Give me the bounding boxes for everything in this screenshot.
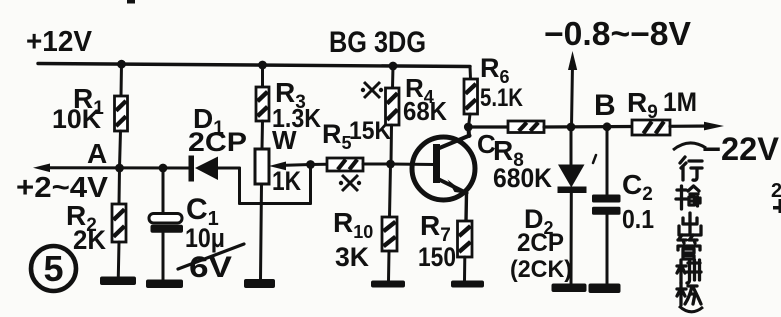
select mark for R4 [361,82,383,98]
node junction collector [464,123,473,132]
svg-text:6V: 6V [189,251,232,284]
power label +12V [26,26,93,58]
value 10u [185,223,225,253]
value D2 2CP [517,229,564,257]
ground R2 [100,277,136,286]
wire R6 bottom lead [469,114,471,127]
value 1K [272,166,301,196]
node junction rail-R3 [258,61,267,70]
wire R10 bottom lead [387,251,391,281]
wire R2 top lead [118,168,122,204]
label C1 [186,193,219,230]
wire R10 top lead [390,164,391,217]
wire D2 bottom lead [570,193,573,284]
value 1M [663,87,697,117]
svg-text:2: 2 [771,180,781,202]
hanzi chu (out) [679,213,701,235]
svg-text:68K: 68K [403,96,447,126]
resistor R6 [464,79,478,114]
resistor R4 [386,88,400,125]
label node A [87,138,107,169]
wire R8-R9 lead [544,125,632,129]
label node B [594,89,616,122]
resistor R9 [632,120,670,135]
wire collector-R8 lead [468,125,508,128]
wire bias measure arrow [568,51,577,127]
svg-text:B: B [594,89,616,122]
svg-text:150: 150 [418,242,456,272]
label +2~4V [16,172,109,204]
resistor R8 [508,121,544,133]
diode D1 cathode bar [189,156,195,182]
wire emitter down lead [464,193,468,221]
wire R3-W lead [261,121,265,149]
wire D1 feedback loop [240,165,311,204]
value 2CP [188,127,247,157]
node junction A-C1 [159,164,168,173]
node junction wiper [306,160,315,169]
annotation closing paren [679,306,703,312]
label -22V [702,131,780,167]
svg-text:5.1K: 5.1K [480,84,523,112]
label R7 [420,210,451,246]
scan speck top [127,0,135,4]
wire R7 bottom lead [463,257,466,281]
resistor R10 [382,217,397,251]
svg-text:A: A [87,138,107,169]
label R10 [333,207,373,242]
svg-text:10μ: 10μ [185,223,225,253]
capacitor C2 top plate [592,195,621,203]
resistor R2 [112,204,126,242]
value 6V [189,251,232,284]
wire R1 bottom lead [120,131,121,168]
hanzi ji (electrode) [677,283,701,305]
value 5.1K [480,84,523,112]
svg-text:1M: 1M [663,87,697,117]
value 15K [349,117,391,145]
svg-text:W: W [272,125,297,155]
svg-text:BG 3DG: BG 3DG [329,26,426,59]
value 3K [335,242,369,272]
scan bleed right edge [771,180,781,213]
value 68K [403,96,447,126]
ground R7 [451,281,484,288]
node junction rail-R4 [389,62,398,71]
capacitor C1 negative plate [151,225,184,233]
label -0.8~-8V [544,15,691,52]
capacitor C2 bottom plate [592,207,621,215]
resistor R7 [458,221,473,257]
label R8 [493,135,524,171]
svg-text:−0.8~−8V: −0.8~−8V [544,15,691,52]
value D2 2CK [510,256,572,283]
potentiometer W wiper arrow [269,162,311,171]
svg-text:2CP: 2CP [517,229,564,257]
value 10K [52,104,101,134]
svg-text:R7: R7 [420,210,451,246]
svg-text:+12V: +12V [26,26,93,58]
ground W [244,279,275,288]
wire D2 top lead [570,127,573,164]
wire output with right arrow [670,122,724,131]
transistor Q1 collector stroke [437,128,470,149]
svg-text:R10: R10 [333,207,373,242]
value 680K [493,163,552,193]
transistor BG label [329,26,426,59]
svg-text:5: 5 [43,248,63,289]
value 150 [418,242,456,272]
ground C1 [146,280,183,289]
svg-text:680K: 680K [493,163,552,193]
diode D2 arrow [558,165,585,188]
svg-text:10K: 10K [52,104,101,134]
svg-text:C2: C2 [622,169,653,205]
annotation opening paren [673,143,706,150]
resistor R1 [115,96,128,131]
wire W bottom lead [261,184,262,280]
wire R4 bottom lead [390,125,394,164]
wire C1 bottom lead [162,233,165,280]
fraction slash [178,244,244,269]
wire rail-R6 corner [469,67,473,80]
ground D2 [552,284,587,293]
capacitor C1 positive plate [149,214,182,224]
scan tick near C2 [593,155,596,163]
node junction rail-R1 [117,60,126,69]
label R9 [627,87,658,123]
label R3 [275,77,306,113]
node A junction dot [115,164,124,173]
hanzi guan (tube) [678,235,700,259]
wire R2 bottom lead [117,242,121,277]
value 0.1 [622,204,654,234]
node junction base [386,160,395,169]
hanzi shu (output-1) [676,186,700,209]
wire C1 top lead [162,168,165,214]
diode D2 cathode bar [558,187,587,194]
svg-text:2K: 2K [73,225,106,255]
wire D1 anode lead [218,167,240,170]
label R6 [480,53,510,87]
svg-text:+2~4V: +2~4V [16,172,109,204]
potentiometer W body [255,149,269,184]
resistor R5 [327,158,363,171]
svg-text:(2CK): (2CK) [510,256,572,283]
ground R10 [371,281,405,288]
hanzi zha (grid) [677,260,701,283]
node junction D2 tap [567,123,576,132]
wire C2 bottom lead [606,215,609,284]
label D1 [193,103,224,139]
svg-text:3K: 3K [335,242,369,272]
select mark for R5 [339,175,361,191]
svg-text:R6: R6 [480,53,510,87]
svg-text:0.1: 0.1 [622,204,654,234]
label R4 [405,73,434,107]
label D2 [524,204,554,238]
wire base lead [391,163,435,167]
label R2 [66,200,97,236]
value 1.3K [272,103,321,133]
hanzi xing (line) [680,157,702,180]
svg-text:1K: 1K [272,166,301,196]
label W [272,125,297,155]
label R5 [322,119,352,153]
wire wiper-R5 lead [311,163,328,166]
diode D1 arrow [195,157,218,181]
svg-text:R9: R9 [627,87,658,123]
figure number circle 5 [31,246,76,291]
label collector C [477,129,496,159]
wire R4 top lead [391,66,395,88]
transistor Q1 emitter stroke [437,179,467,194]
wire +12V supply rail [38,64,470,67]
svg-text:R5: R5 [322,119,352,153]
resistor R3 [256,87,269,121]
node A wire with left arrow [33,164,189,173]
label R1 [73,83,104,119]
ground C2 [589,284,621,294]
wire R3 top lead [261,65,264,87]
value 2K [73,225,106,255]
svg-text:2CP: 2CP [188,127,247,157]
wire R1 top lead [120,64,124,96]
label C2 [622,169,653,205]
node junction B [603,122,612,131]
svg-text:−22V: −22V [702,131,780,167]
transistor Q1 base bar [433,144,440,183]
wire C2 top lead [606,127,609,195]
wire R5-base lead [363,163,391,166]
transistor Q1 body circle [412,137,475,200]
